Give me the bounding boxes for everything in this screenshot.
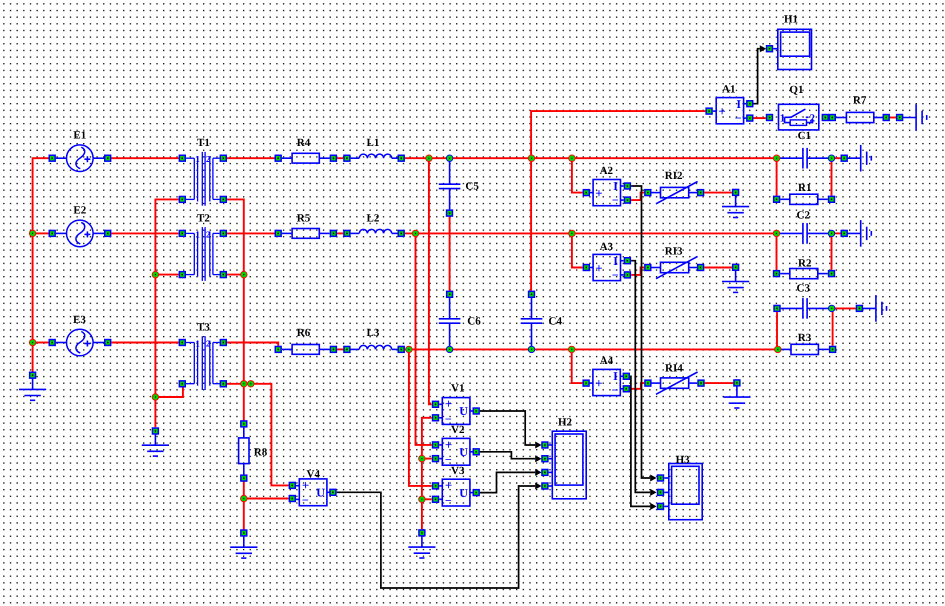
wire row3 to A4 feed	[572, 349, 583, 383]
svg-text:R8: R8	[254, 447, 268, 459]
wire V3 minus stub	[422, 498, 432, 500]
wire cell3 to ground stub	[832, 307, 856, 309]
svg-text:L2: L2	[367, 212, 380, 224]
ground cell2	[844, 232, 861, 234]
ground right of R7	[900, 117, 917, 119]
svg-text:I: I	[736, 97, 741, 111]
wire left bus from E1 to ground	[33, 158, 49, 375]
wire row1 L1 to cell1	[405, 157, 777, 159]
ground cell1	[844, 157, 861, 159]
svg-text:H1: H1	[784, 14, 798, 26]
wire T3 secondary right to V4+	[227, 384, 289, 486]
ground below RI2	[735, 192, 737, 206]
svg-text:I: I	[613, 179, 618, 193]
svg-text:E1: E1	[73, 130, 86, 142]
AC source E2	[56, 232, 67, 234]
resistor R3	[778, 348, 792, 350]
capacitor C2	[777, 232, 803, 234]
svg-text:+: +	[595, 186, 602, 201]
svg-text:−: −	[612, 193, 619, 207]
wire cell2 right leg to R2	[831, 233, 833, 270]
resistor R6	[282, 348, 292, 350]
svg-text:V2: V2	[451, 424, 465, 436]
svg-text:T1: T1	[197, 137, 210, 149]
wire row2 to A3 feed	[572, 233, 583, 267]
terminals (component pins)	[29, 45, 903, 537]
wire T2 secondary right stub	[227, 274, 244, 276]
ground below R8	[243, 533, 245, 547]
wire A4 minus jog to RI4	[630, 383, 644, 389]
svg-text:L3: L3	[367, 327, 380, 339]
switch Q1	[779, 104, 819, 130]
wire C5 bottom to row2	[449, 217, 451, 234]
svg-text:A3: A3	[600, 241, 614, 253]
voltmeter V2	[442, 438, 470, 465]
svg-text:2: 2	[206, 154, 211, 164]
ammeter A4	[593, 369, 620, 395]
svg-text:T2: T2	[197, 212, 210, 224]
svg-text:1: 1	[195, 229, 200, 239]
svg-text:C2: C2	[797, 210, 811, 222]
ground below RI4	[736, 383, 738, 397]
svg-text:−: −	[612, 383, 619, 397]
svg-text:U: U	[459, 486, 468, 500]
wire cell2 to ground stub	[832, 232, 841, 234]
svg-text:C6: C6	[467, 316, 481, 328]
wire row3 L3 to R3	[405, 348, 778, 350]
svg-text:RI2: RI2	[665, 170, 683, 182]
wire A2 I-output to H3 pin1	[631, 186, 650, 478]
wire R5 double-terminal stub	[337, 232, 343, 234]
wire A1 I-output to H1	[754, 49, 760, 104]
svg-text:R1: R1	[798, 182, 811, 194]
rheostat RI4	[661, 378, 689, 388]
svg-text:R3: R3	[798, 332, 812, 344]
wire E3 left stub	[33, 342, 49, 344]
wire C3 left leg to row3	[776, 312, 778, 349]
wire row2 to C6 top	[449, 233, 451, 290]
wire E2 left stub	[33, 232, 49, 234]
AC source E3	[56, 342, 67, 344]
inductor L2	[351, 232, 360, 234]
wire V4 minus to R8 column	[244, 498, 289, 500]
capacitor C1	[777, 157, 803, 159]
svg-text:−: −	[302, 493, 309, 507]
resistor R2	[780, 273, 790, 275]
svg-text:R2: R2	[798, 258, 812, 270]
svg-text:R5: R5	[297, 212, 311, 224]
svg-text:H3: H3	[676, 454, 691, 466]
capacitor C6	[449, 298, 451, 319]
wire R6 double-terminal stub	[337, 348, 343, 350]
svg-text:1: 1	[195, 338, 200, 348]
wire row2 to V2 plus	[416, 233, 432, 445]
wire A3 minus jog to RI3	[631, 268, 644, 275]
ground T-secondary left	[154, 431, 156, 445]
ground cell3	[859, 307, 876, 309]
wire A2 minus jog to RI2	[631, 193, 644, 201]
svg-text:E3: E3	[73, 314, 86, 326]
wire V2 output to H2 pin2	[480, 452, 535, 459]
rheostat RI3	[661, 262, 689, 272]
wire cell1 left leg to R1	[776, 158, 778, 195]
voltmeter V1	[442, 398, 470, 425]
AC source E1	[56, 157, 67, 159]
transformer T1	[186, 157, 194, 159]
wire RI2 to ground terminal	[704, 192, 732, 194]
wire cell2 left leg to R2	[776, 233, 778, 270]
wire junction dots	[29, 155, 836, 503]
ground below RI3	[735, 267, 737, 281]
transformer T3	[186, 342, 194, 344]
ground left bus	[32, 375, 34, 389]
recorder H1	[778, 29, 812, 69]
wire E2 to T2	[111, 232, 178, 234]
wire V1 output to H2 pin1	[480, 411, 535, 445]
ammeter A3	[593, 254, 620, 280]
capacitor C3	[781, 307, 803, 309]
svg-text:H2: H2	[558, 417, 573, 429]
wire row1 to A2 feed	[572, 158, 583, 192]
svg-text:U: U	[316, 486, 325, 500]
svg-text:V3: V3	[451, 465, 465, 477]
recorder H2	[552, 431, 586, 499]
svg-text:C3: C3	[797, 283, 811, 295]
svg-text:RI4: RI4	[665, 363, 683, 375]
wire V1 minus chain down to ground	[422, 418, 432, 529]
svg-text:A4: A4	[600, 355, 614, 367]
svg-text:R4: R4	[297, 137, 311, 149]
wire row1 to V1 plus	[429, 158, 432, 404]
wire row2 L2 to cell2	[405, 232, 777, 234]
wire T2 secondary left stub	[155, 274, 178, 276]
wire cell1 right leg to R1	[831, 158, 833, 195]
wire A4 I-output to H3 pin3	[630, 376, 650, 506]
svg-text:U: U	[459, 445, 468, 459]
svg-text:+: +	[445, 437, 452, 452]
svg-text:1: 1	[195, 154, 200, 164]
svg-text:−: −	[445, 493, 452, 507]
wire V2 minus stub	[422, 458, 432, 460]
svg-text:R7: R7	[853, 95, 867, 107]
rheostat RI2	[661, 187, 689, 197]
svg-text:+: +	[445, 396, 452, 411]
wire R8 top	[243, 384, 245, 424]
svg-text:+: +	[718, 104, 725, 119]
wire T2 to R5	[227, 232, 275, 234]
wire A1 feed from C4 column	[531, 111, 705, 291]
svg-text:L1: L1	[367, 137, 380, 149]
resistor R5	[282, 232, 292, 234]
wire A1 minus to Q1	[754, 117, 766, 119]
wire T1 secondary right down	[227, 199, 244, 383]
svg-text:E2: E2	[73, 205, 86, 217]
resistor R8	[243, 428, 245, 438]
wire R7 double-terminal stub	[890, 117, 896, 119]
ammeter A2	[593, 180, 620, 206]
svg-text:C1: C1	[798, 130, 811, 142]
transformer T2	[186, 232, 194, 234]
recorder H3	[669, 464, 702, 520]
svg-text:2: 2	[206, 338, 211, 348]
svg-text:A2: A2	[600, 165, 614, 177]
ground V-minus chain	[421, 533, 423, 547]
svg-text:T3: T3	[197, 322, 210, 334]
resistor R7	[836, 117, 847, 119]
svg-text:C5: C5	[465, 181, 479, 193]
svg-text:C4: C4	[549, 316, 563, 328]
wire RI3 to ground terminal	[704, 267, 732, 269]
inductor L1	[351, 157, 360, 159]
svg-text:−: −	[612, 268, 619, 282]
svg-text:V1: V1	[451, 383, 464, 395]
svg-text:R6: R6	[297, 327, 311, 339]
voltmeter V3	[442, 479, 470, 506]
svg-text:U: U	[459, 404, 468, 418]
wire R8 bottom to ground	[243, 478, 245, 533]
wire R4 double-terminal stub	[337, 157, 343, 159]
wire A3 I-output to H3 pin2	[631, 261, 650, 493]
svg-text:+: +	[445, 478, 452, 493]
ammeter A1	[716, 98, 743, 124]
svg-text:I: I	[613, 369, 618, 383]
resistor R1	[780, 198, 790, 200]
wire E1 to T1	[111, 157, 178, 159]
svg-text:−: −	[735, 111, 742, 125]
voltmeter V4	[299, 479, 327, 506]
wire R3 right leg up to C3	[832, 308, 834, 345]
wire V4 output to H2 pin4	[337, 486, 536, 588]
wire cell1 to ground stub	[832, 157, 841, 159]
svg-text:I: I	[613, 254, 618, 268]
svg-text:V4: V4	[307, 469, 321, 481]
wire T1 secondary left down	[155, 199, 178, 427]
wire E3 to T3	[111, 342, 178, 344]
svg-text:RI3: RI3	[665, 246, 683, 258]
resistor R4	[282, 157, 292, 159]
svg-text:A1: A1	[722, 84, 735, 96]
capacitor C4	[531, 298, 533, 319]
svg-text:+: +	[595, 375, 602, 390]
capacitor C5	[449, 158, 451, 184]
wire row3 to V3 plus	[409, 349, 432, 486]
svg-text:2: 2	[206, 229, 211, 239]
inductor L3	[351, 348, 360, 350]
svg-text:+: +	[595, 260, 602, 275]
svg-text:Q1: Q1	[789, 84, 803, 96]
wire T3 secondary left down-jog	[155, 388, 183, 398]
wire T3 to R6 with jog	[227, 343, 278, 346]
wire RI4 to ground terminal	[705, 382, 734, 384]
wire V3 output to H2 pin3	[480, 472, 535, 492]
wire T1 to R4	[227, 157, 275, 159]
